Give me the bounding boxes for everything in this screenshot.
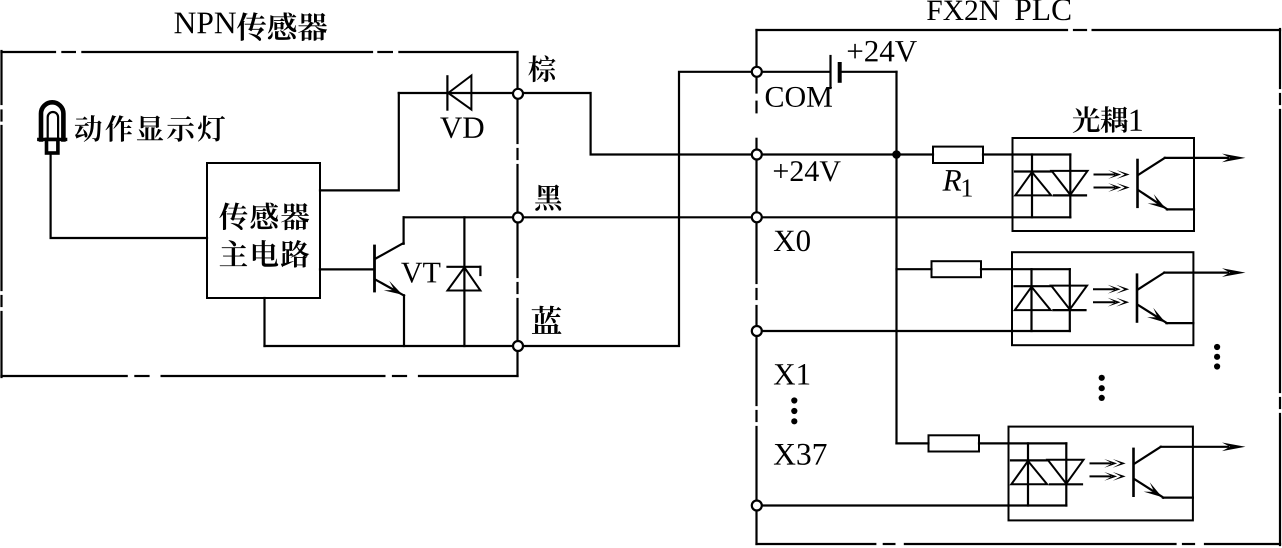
terminal: blue [513, 341, 523, 351]
diode VD [446, 76, 448, 109]
wire: brown line (left of terminal) [399, 92, 513, 94]
terminal: black [513, 213, 523, 223]
wire: battery down to +24V rail [895, 72, 897, 155]
opto 1 phototransistor [1136, 160, 1139, 207]
opto 1 input rails [1013, 153, 1071, 155]
optocoupler 1 box [1013, 138, 1195, 231]
terminal +24V [752, 150, 762, 160]
resistor R1 [933, 147, 983, 163]
transistor VT [373, 246, 376, 291]
wire X1 to opto2 [762, 330, 1012, 332]
opto 2 emitter wire [1166, 322, 1193, 324]
PLC dashed enclosure: FX2N PLC [757, 29, 1068, 31]
wire: lamp to sensor box [51, 153, 207, 238]
optocoupler 3 box [1009, 427, 1193, 521]
opto 3 input rails [1009, 442, 1067, 444]
+24V branch vertical [895, 155, 897, 444]
sensor main circuit box [207, 163, 320, 298]
terminal X0 [752, 212, 762, 222]
battery 24V [762, 71, 829, 73]
wire to resistor row2 [897, 268, 932, 270]
ellipsis dots (middle) [1099, 375, 1105, 381]
zener clamp diode [463, 217, 465, 346]
opto 3 output arrow [1161, 446, 1228, 448]
indicator lamp [41, 102, 63, 139]
optocoupler 2 box [1012, 252, 1193, 345]
terminal: brown [513, 89, 523, 99]
ellipsis dots (right) [1214, 344, 1220, 350]
title: NPN sensor [175, 13, 236, 34]
wire: black terminal to PLC X0 terminal [523, 216, 751, 218]
wire: sensor box to VT base [320, 268, 373, 270]
opto 1 light arrows [1095, 174, 1115, 176]
label: sensor main circuit [219, 202, 309, 230]
opto 3 LED D2 (down) [1065, 443, 1067, 505]
+24V rail to R1 [762, 153, 933, 155]
terminal X37 [752, 501, 762, 511]
label: optocoupler 1 [1073, 106, 1128, 133]
opto 3 emitter wire [1163, 497, 1193, 499]
opto 3 phototransistor [1132, 449, 1135, 496]
wire: black line (left of terminal) [404, 216, 513, 218]
resistor R (row2) [932, 261, 982, 277]
opto 2 LED D2 (down) [1069, 269, 1071, 331]
ellipsis dots (X inputs) [791, 397, 797, 403]
terminal X1 [752, 326, 762, 336]
label: action indicator lamp [75, 115, 225, 142]
opto 1 LED D2 (down) [1069, 155, 1071, 218]
opto 2 light arrows [1094, 288, 1114, 290]
opto 2 phototransistor [1136, 275, 1139, 322]
wire X0 to opto1 [762, 216, 1012, 218]
wire to resistor row3 [897, 442, 929, 444]
title: FX2N PLC [927, 0, 999, 20]
wire X37 to opto3 [762, 504, 1008, 506]
opto 3 light arrows [1091, 462, 1111, 464]
resistor R (row3) [929, 435, 980, 451]
opto 2 input rails [1012, 268, 1070, 270]
label VT [401, 263, 440, 283]
opto 1 emitter wire [1167, 208, 1194, 210]
wire: brown terminal to PLC +24V terminal [523, 93, 751, 155]
wire: blue rail (emitter/ground) [263, 298, 265, 346]
label VD [440, 118, 483, 139]
opto 2 output arrow [1164, 272, 1228, 274]
opto 3 LED D1 (up) [1027, 443, 1029, 505]
opto 1 output arrow [1165, 157, 1228, 159]
label +24V (battery) [848, 41, 917, 62]
opto 1 LED D1 (up) [1031, 155, 1033, 218]
left dashed enclosure: NPN sensor [2, 51, 56, 53]
label R1 [942, 170, 961, 190]
junction node [892, 150, 901, 159]
wire: blue terminal up to PLC COM terminal [523, 72, 751, 346]
opto 2 LED D1 (up) [1030, 269, 1032, 331]
wire: box to diode VD branch [320, 93, 399, 190]
terminal COM [752, 67, 762, 77]
